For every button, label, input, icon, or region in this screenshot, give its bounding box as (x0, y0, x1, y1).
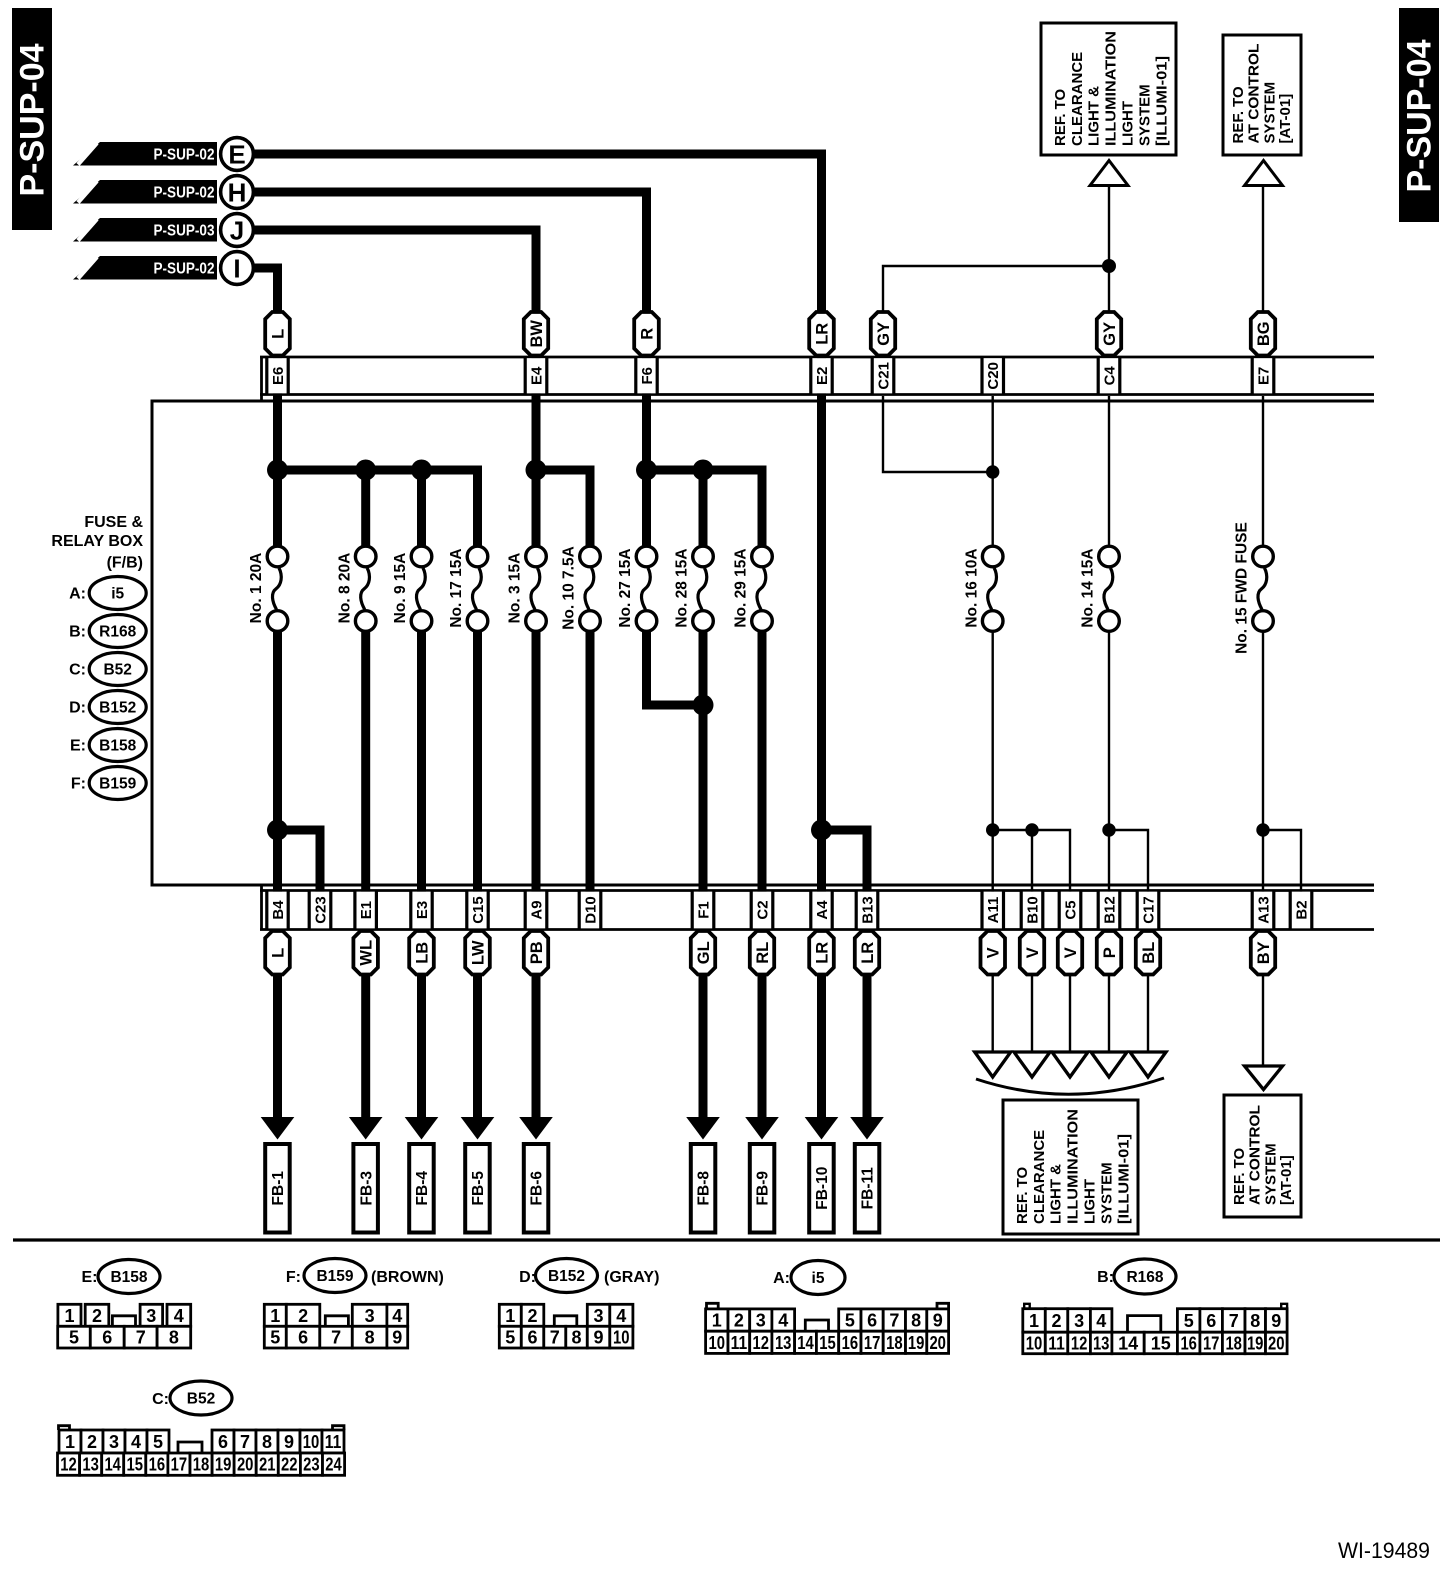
top connector strip of fuse box (260, 357, 263, 401)
svg-text:C21: C21 (875, 362, 892, 390)
connector pin B2 (bottom strip) (1290, 892, 1312, 929)
connector pin E3 (bottom strip) (411, 892, 433, 929)
svg-text:[AT-01]: [AT-01] (1278, 1155, 1295, 1205)
connector pin E7 (top strip) (1252, 358, 1274, 393)
arrow (P) to ILLUMI-01 (bottom) (1091, 1052, 1127, 1077)
connector pin B10 (bottom strip) (1021, 892, 1042, 929)
wire color label GY (top) (871, 312, 895, 356)
svg-text:6: 6 (867, 1311, 877, 1331)
svg-text:14: 14 (104, 1455, 121, 1475)
terminal box FB-3 (353, 1144, 378, 1233)
connector D: B152 (GRAY) label (519, 1259, 659, 1293)
svg-text:17: 17 (171, 1455, 188, 1475)
svg-text:A9: A9 (528, 900, 545, 919)
svg-text:13: 13 (82, 1455, 99, 1475)
junction dots A11/B10 branch (986, 823, 999, 836)
wire color label BG (top) (1251, 312, 1275, 356)
svg-text:GL: GL (695, 941, 713, 964)
terminal box FB-8 (691, 1144, 716, 1233)
wire fuse No.8 output to connector E1 (361, 630, 370, 892)
svg-text:9: 9 (284, 1432, 294, 1452)
svg-text:No. 10 7.5A: No. 10 7.5A (561, 546, 578, 630)
terminal box FB-4 (409, 1144, 434, 1233)
svg-text:C2: C2 (754, 900, 771, 919)
wire branch to B10 and C5 (993, 830, 1070, 892)
svg-text:1: 1 (65, 1432, 75, 1452)
svg-text:i5: i5 (111, 586, 124, 603)
svg-text:ILLUMINATION: ILLUMINATION (1065, 1109, 1082, 1224)
connector pin E2 (top strip) (811, 358, 833, 393)
svg-text:SYSTEM: SYSTEM (1098, 1162, 1115, 1224)
svg-text:R168: R168 (99, 624, 136, 641)
wire from C4 connector down (1108, 266, 1110, 358)
svg-text:No. 17 15A: No. 17 15A (448, 548, 465, 627)
fuse No. 8 20A (336, 546, 376, 631)
junction dot on bus 2 (526, 460, 547, 481)
arrow (V) to ILLUMI-01 (bottom) (1052, 1052, 1088, 1077)
svg-text:C:: C: (69, 662, 86, 679)
svg-text:14: 14 (1118, 1334, 1138, 1354)
svg-text:10: 10 (709, 1333, 726, 1353)
svg-text:E:: E: (82, 1269, 98, 1286)
junction dot at A4/B13 branch (811, 820, 832, 841)
wire fuse No.1 output to connector B4 and C23 (273, 630, 282, 892)
grouping arc for ILLUMI-01 arrows (976, 1078, 1164, 1094)
svg-text:11: 11 (325, 1432, 342, 1452)
svg-text:F1: F1 (695, 901, 712, 919)
svg-text:E6: E6 (270, 367, 287, 385)
svg-text:2: 2 (527, 1306, 537, 1326)
svg-text:4: 4 (778, 1311, 788, 1331)
svg-text:I: I (233, 254, 240, 284)
svg-text:8: 8 (571, 1328, 581, 1348)
svg-text:23: 23 (303, 1455, 320, 1475)
svg-text:LW: LW (469, 940, 487, 965)
svg-text:WL: WL (358, 940, 376, 966)
svg-text:10: 10 (1026, 1334, 1043, 1354)
svg-text:4: 4 (174, 1306, 184, 1326)
connector pin D10 (bottom strip) (579, 892, 601, 929)
svg-text:LR: LR (813, 323, 831, 345)
terminal box FB-6 (524, 1144, 549, 1233)
connector pin A4 (bottom strip) (811, 892, 833, 929)
svg-text:24: 24 (325, 1455, 342, 1475)
connector legend E: B158 (70, 729, 146, 762)
svg-text:E2: E2 (814, 367, 831, 385)
svg-text:12: 12 (60, 1455, 77, 1475)
svg-text:1: 1 (1029, 1311, 1039, 1331)
svg-text:6: 6 (1206, 1311, 1216, 1331)
arrow (BY) to AT-01 (bottom) (1245, 1066, 1283, 1090)
svg-text:(F/B): (F/B) (107, 555, 143, 572)
terminal box FB-5 (465, 1144, 490, 1233)
svg-text:LIGHT: LIGHT (1082, 1179, 1099, 1224)
svg-text:C20: C20 (985, 362, 1002, 390)
svg-text:GY: GY (1101, 322, 1119, 346)
wire LR to FB-11 (863, 929, 872, 1118)
connector A: i5 pin grid (706, 1303, 949, 1353)
wire from P-SUP-02 (E) to connector E2 (253, 154, 822, 360)
svg-text:15: 15 (819, 1333, 836, 1353)
connector legend C: B52 (69, 653, 146, 686)
svg-text:A11: A11 (985, 897, 1002, 924)
svg-text:LIGHT &: LIGHT & (1086, 86, 1103, 146)
wire LW to FB-5 (473, 929, 482, 1118)
svg-text:E3: E3 (414, 901, 431, 919)
fuse No. 10 7.5A (561, 546, 601, 631)
wire color label PB (bottom) (524, 931, 548, 975)
wire BL to ILLUMI-01 arrow (1147, 929, 1149, 1053)
svg-text:19: 19 (215, 1455, 232, 1475)
connector pin C20 (top strip) (982, 358, 1004, 393)
connector E: B158 pin grid (58, 1304, 191, 1348)
wire from P-SUP-03 (J) to connector E4 (253, 230, 536, 360)
svg-text:B152: B152 (99, 700, 136, 717)
svg-text:R168: R168 (1126, 1269, 1163, 1286)
svg-text:[AT-01]: [AT-01] (1277, 94, 1294, 144)
svg-text:BY: BY (1255, 941, 1273, 964)
svg-text:FUSE &: FUSE & (84, 514, 143, 531)
svg-text:B2: B2 (1293, 900, 1310, 919)
svg-text:B:: B: (1097, 1269, 1114, 1286)
connector pin C2 (bottom strip) (751, 892, 773, 929)
svg-text:7: 7 (1229, 1311, 1239, 1331)
svg-text:12: 12 (753, 1333, 770, 1353)
wire fuse No.10 output to connector D10 (586, 630, 595, 892)
svg-text:18: 18 (886, 1333, 903, 1353)
fuse &amp; relay box outline (151, 401, 154, 885)
wire PB to FB-6 (532, 929, 541, 1118)
svg-text:REF. TO: REF. TO (1014, 1166, 1031, 1224)
off-page connector P-SUP-02 (I) (73, 252, 253, 285)
wire color label GL (bottom) (691, 931, 715, 975)
wire color label LR (bottom) (809, 931, 834, 975)
connector pin C17 (bottom strip) (1137, 892, 1159, 929)
terminal box FB-11 (855, 1144, 880, 1233)
connector pin C21 (top strip) (872, 358, 894, 393)
label FUSE &amp; RELAY BOX (F/B) (51, 514, 143, 572)
arrow (BL) to ILLUMI-01 (bottom) (1130, 1052, 1166, 1077)
svg-text:18: 18 (193, 1455, 210, 1475)
svg-text:8: 8 (365, 1328, 375, 1348)
fuse No. 27 15A (617, 546, 657, 631)
svg-text:P-SUP-03: P-SUP-03 (154, 223, 215, 240)
page label banner right P-SUP-04 (1399, 8, 1439, 222)
svg-text:B159: B159 (316, 1268, 353, 1285)
svg-text:17: 17 (864, 1333, 881, 1353)
svg-text:9: 9 (1271, 1311, 1281, 1331)
wire fuse No.17 output to connector C15 (473, 630, 482, 892)
wire V to ILLUMI-01 arrow (992, 929, 994, 1053)
connector legend D: B152 (69, 691, 146, 724)
svg-text:FB-11: FB-11 (860, 1167, 877, 1210)
svg-text:No. 3 15A: No. 3 15A (507, 553, 524, 624)
svg-text:11: 11 (731, 1333, 748, 1353)
connector pin F6 (top strip) (636, 358, 658, 393)
svg-text:8: 8 (911, 1311, 921, 1331)
svg-text:LIGHT &: LIGHT & (1048, 1164, 1065, 1224)
arrow to REF. TO AT CONTROL (top) (1245, 161, 1283, 186)
wire C4 column through No.14 fuse to B12 (1108, 396, 1110, 547)
wire color label LR (bottom) (855, 931, 879, 975)
svg-text:9: 9 (593, 1328, 603, 1348)
wire color label BW (top) (524, 312, 548, 356)
svg-text:C:: C: (152, 1391, 169, 1408)
wire fuse No.28 output to connector F1 (699, 630, 708, 892)
svg-text:4: 4 (1096, 1311, 1106, 1331)
svg-text:No. 1 20A: No. 1 20A (248, 553, 265, 624)
svg-text:7: 7 (550, 1328, 560, 1348)
svg-text:FB-3: FB-3 (358, 1171, 375, 1206)
svg-text:15: 15 (1151, 1334, 1171, 1354)
connector pin E4 (top strip) (525, 358, 547, 393)
svg-text:5: 5 (505, 1328, 515, 1348)
wire color label LW (bottom) (465, 931, 490, 975)
wire color label L (top) (265, 312, 290, 356)
wire from junction up to ILLUMI-01 reference (1108, 186, 1110, 266)
svg-text:7: 7 (331, 1328, 341, 1348)
svg-text:B:: B: (69, 624, 86, 641)
wire fuse No.27 output joining No.28 (647, 630, 704, 705)
wire fuse No.3 output to connector A9 (532, 630, 541, 892)
arrow (V) to ILLUMI-01 (bottom) (975, 1052, 1011, 1077)
separator line above connector pinouts (13, 1238, 1440, 1241)
svg-text:REF. TO: REF. TO (1230, 86, 1247, 144)
svg-text:10: 10 (613, 1328, 630, 1348)
wire from P-SUP-02 (I) to connector E6 (253, 268, 278, 360)
svg-text:20: 20 (929, 1333, 946, 1353)
connector pin B12 (bottom strip) (1098, 892, 1120, 929)
svg-text:C23: C23 (312, 896, 329, 924)
svg-text:B13: B13 (859, 896, 876, 924)
wire bus No.1/8/9/17 (273, 360, 282, 547)
wire color label LB (bottom) (409, 931, 434, 975)
wire color label P (bottom) (1097, 931, 1121, 975)
svg-text:REF. TO: REF. TO (1052, 88, 1069, 146)
wire junction node on GY net (1102, 259, 1116, 273)
svg-text:2: 2 (1051, 1311, 1061, 1331)
svg-text:5: 5 (270, 1328, 280, 1348)
svg-text:9: 9 (933, 1311, 943, 1331)
svg-text:P-SUP-02: P-SUP-02 (154, 147, 215, 164)
svg-text:WI-19489: WI-19489 (1338, 1538, 1430, 1563)
wire LR to FB-10 (817, 929, 826, 1118)
wire fuse No.9 output to connector E3 (417, 630, 426, 892)
wire color label RL (bottom) (750, 931, 774, 975)
svg-text:5: 5 (69, 1328, 79, 1348)
svg-text:i5: i5 (812, 1270, 825, 1287)
svg-text:P: P (1101, 947, 1119, 958)
wire color label WL (bottom) (353, 931, 378, 975)
wire fuse No.29 output to connector C2 (758, 630, 767, 892)
fuse No. 17 15A (448, 546, 488, 631)
svg-text:2: 2 (298, 1306, 308, 1326)
svg-text:E: E (228, 140, 245, 170)
svg-text:D10: D10 (582, 896, 599, 924)
connector pin E1 (bottom strip) (355, 892, 377, 929)
wire bus No.27/28/29 (642, 360, 651, 547)
svg-text:5: 5 (153, 1432, 163, 1452)
wire V to ILLUMI-01 arrow (1031, 929, 1033, 1053)
svg-text:7: 7 (240, 1432, 250, 1452)
arrow to REF. TO CLEARANCE LIGHT (top) (1090, 161, 1128, 186)
svg-text:L: L (269, 329, 287, 339)
svg-text:BW: BW (528, 320, 546, 348)
wire color label BY (bottom) (1251, 931, 1275, 975)
svg-text:8: 8 (262, 1432, 272, 1452)
svg-text:C15: C15 (470, 896, 487, 924)
svg-text:BG: BG (1255, 321, 1273, 346)
wire BG from E7 up to AT-01 reference (1262, 186, 1264, 358)
junction dot fuse27/28 outputs (693, 695, 714, 716)
svg-text:16: 16 (1180, 1334, 1197, 1354)
wire V to ILLUMI-01 arrow (1069, 929, 1071, 1053)
svg-text:J: J (230, 216, 244, 246)
wire color label BL (bottom) (1136, 931, 1160, 975)
junction dot C21/C20 (986, 465, 999, 478)
svg-text:13: 13 (775, 1333, 792, 1353)
svg-text:15: 15 (127, 1455, 144, 1475)
svg-text:H: H (228, 178, 247, 208)
wire color label R (top) (634, 312, 659, 356)
svg-text:B52: B52 (187, 1391, 215, 1408)
wire BY to AT-01 arrow (1262, 929, 1264, 1067)
svg-text:F:: F: (286, 1269, 301, 1286)
svg-text:B10: B10 (1024, 896, 1041, 924)
svg-text:6: 6 (102, 1328, 112, 1348)
wire color label GY (top) (1097, 312, 1121, 356)
svg-text:3: 3 (756, 1311, 766, 1331)
svg-text:8: 8 (169, 1328, 179, 1348)
svg-text:[ILLUMI-01]: [ILLUMI-01] (1115, 1134, 1132, 1224)
svg-text:3: 3 (365, 1306, 375, 1326)
junction dot B12/C17 branch (1102, 823, 1115, 836)
wire WL to FB-3 (361, 929, 370, 1118)
svg-text:LR: LR (859, 942, 877, 964)
svg-text:No. 14 15A: No. 14 15A (1080, 548, 1097, 627)
svg-text:18: 18 (1225, 1334, 1242, 1354)
svg-text:RELAY BOX: RELAY BOX (51, 533, 143, 550)
terminal box FB-1 (265, 1144, 290, 1233)
svg-text:2: 2 (92, 1306, 102, 1326)
wire L to FB-1 (273, 929, 282, 1118)
fuse No. 29 15A (733, 546, 773, 631)
svg-text:No. 15 FWD FUSE: No. 15 FWD FUSE (1234, 522, 1251, 654)
reference box REF. TO AT CONTROL SYSTEM [AT-01] (bottom) (1224, 1095, 1301, 1217)
reference box REF. TO AT CONTROL SYSTEM [AT-01] (top) (1223, 35, 1301, 155)
svg-text:V: V (1062, 947, 1080, 958)
svg-text:14: 14 (797, 1333, 814, 1353)
svg-text:SYSTEM: SYSTEM (1262, 1143, 1279, 1205)
svg-text:6: 6 (298, 1328, 308, 1348)
off-page connector P-SUP-02 (E) (73, 138, 253, 171)
svg-text:AT CONTROL: AT CONTROL (1246, 44, 1263, 144)
svg-text:SYSTEM: SYSTEM (1261, 82, 1278, 144)
svg-text:12: 12 (1071, 1334, 1088, 1354)
svg-text:CLEARANCE: CLEARANCE (1069, 52, 1086, 146)
svg-text:F6: F6 (639, 367, 656, 385)
svg-text:1: 1 (270, 1306, 280, 1326)
svg-text:ILLUMINATION: ILLUMINATION (1103, 31, 1120, 146)
svg-text:C4: C4 (1101, 366, 1118, 386)
svg-text:4: 4 (392, 1306, 402, 1326)
connector pin C23 (bottom strip) (309, 892, 331, 929)
wire color label L (bottom) (265, 931, 290, 975)
svg-text:7: 7 (889, 1311, 899, 1331)
svg-text:FB-4: FB-4 (414, 1171, 431, 1206)
wire C21 to No.16 fuse feed (883, 396, 993, 472)
reference box REF. TO CLEARANCE LIGHT & ILLUMINATION LIGHT SYSTEM [ILLUMI-01] (bottom) (1003, 1100, 1138, 1234)
svg-text:LR: LR (813, 942, 831, 964)
wire E2 feed to connectors A4 and B13 (817, 360, 826, 892)
wire branch to C17 (1109, 830, 1148, 892)
svg-text:7: 7 (136, 1328, 146, 1348)
connector E: B158 label (82, 1260, 161, 1294)
svg-text:No. 8 20A: No. 8 20A (336, 553, 353, 624)
wire branch to B2 (1263, 830, 1301, 892)
svg-text:17: 17 (1203, 1334, 1220, 1354)
connector pin E6 (top strip) (267, 358, 289, 393)
svg-text:20: 20 (237, 1455, 254, 1475)
bottom connector strip of fuse box (260, 885, 263, 930)
connector legend A: i5 (69, 577, 146, 610)
svg-text:1: 1 (712, 1311, 722, 1331)
wire GY net from C21 to C4 junction (883, 266, 1109, 358)
svg-text:8: 8 (1250, 1311, 1260, 1331)
svg-text:B4: B4 (270, 900, 287, 920)
connector C: B52 pin grid (58, 1426, 345, 1476)
wire color label V (bottom) (1020, 931, 1044, 975)
svg-text:6: 6 (527, 1328, 537, 1348)
svg-text:V: V (1024, 947, 1042, 958)
svg-text:10: 10 (303, 1432, 320, 1452)
svg-text:D:: D: (519, 1269, 536, 1286)
svg-text:E:: E: (70, 738, 86, 755)
svg-text:4: 4 (131, 1432, 141, 1452)
svg-text:GY: GY (875, 322, 893, 346)
fuse No. 9 15A (392, 546, 432, 631)
reference box REF. TO CLEARANCE LIGHT & ILLUMINATION LIGHT SYSTEM [ILLUMI-01] (top) (1041, 23, 1176, 155)
svg-text:(GRAY): (GRAY) (604, 1269, 659, 1286)
arrow (V) to ILLUMI-01 (bottom) (1014, 1052, 1050, 1077)
svg-text:D:: D: (69, 700, 86, 717)
svg-text:FB-1: FB-1 (270, 1171, 287, 1206)
connector pin B13 (bottom strip) (856, 892, 878, 929)
svg-text:FB-8: FB-8 (696, 1171, 713, 1206)
wire P to ILLUMI-01 arrow (1108, 929, 1110, 1053)
svg-text:19: 19 (1247, 1334, 1264, 1354)
svg-text:E7: E7 (1255, 367, 1272, 385)
svg-text:CLEARANCE: CLEARANCE (1031, 1130, 1048, 1224)
svg-text:P-SUP-02: P-SUP-02 (154, 261, 215, 278)
wire GL to FB-8 (699, 929, 708, 1118)
svg-text:16: 16 (842, 1333, 859, 1353)
connector pin C5 (bottom strip) (1059, 892, 1081, 929)
junction dot A13/B2 branch (1256, 823, 1269, 836)
svg-text:PB: PB (528, 941, 546, 964)
page label banner left P-SUP-04 (12, 8, 52, 230)
wire color label V (bottom) (1058, 931, 1082, 975)
connector pin C15 (bottom strip) (467, 892, 489, 929)
wire RL to FB-9 (758, 929, 767, 1118)
connector F: B159 (BROWN) label (286, 1259, 444, 1293)
svg-text:LIGHT: LIGHT (1120, 101, 1137, 146)
fuse No. 14 15A (1080, 546, 1120, 631)
connector pin A13 (bottom strip) (1252, 892, 1274, 929)
svg-text:A:: A: (773, 1270, 790, 1287)
svg-text:3: 3 (109, 1432, 119, 1452)
connector pin F1 (bottom strip) (692, 892, 714, 929)
